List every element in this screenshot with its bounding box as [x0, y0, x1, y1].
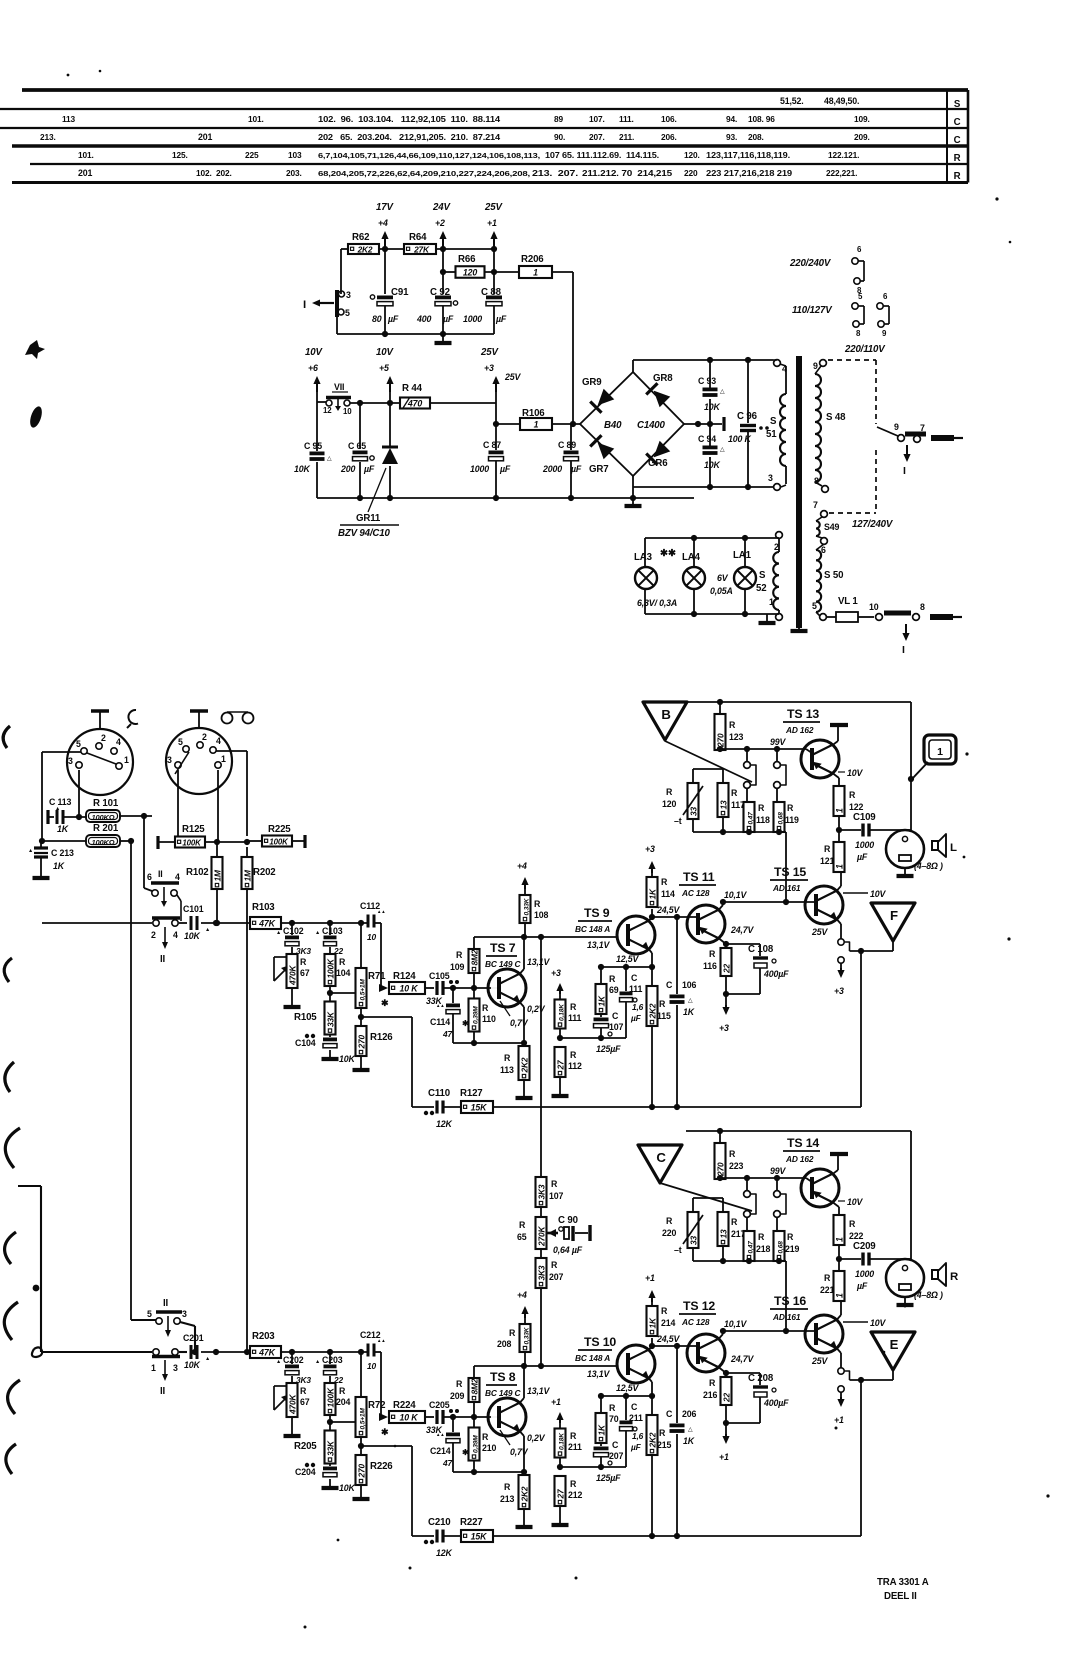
- svg-text:1: 1: [221, 754, 226, 764]
- svg-text:R: R: [666, 1216, 673, 1226]
- svg-text:1,6: 1,6: [632, 1002, 644, 1012]
- svg-text:51,52.: 51,52.: [780, 96, 804, 106]
- svg-text:10,1V: 10,1V: [724, 1319, 748, 1329]
- svg-text:LA4: LA4: [682, 552, 701, 563]
- svg-text:203.: 203.: [286, 168, 302, 178]
- svg-text:R102: R102: [186, 867, 209, 878]
- svg-text:8M2: 8M2: [469, 949, 479, 965]
- feedback rail: [493, 1106, 861, 1108]
- emitter link: [838, 939, 844, 945]
- svg-text:24,5V: 24,5V: [656, 905, 681, 915]
- svg-text:C 108: C 108: [748, 944, 774, 955]
- svg-text:10: 10: [367, 932, 376, 942]
- svg-text:C: C: [954, 117, 961, 128]
- svg-text:221: 221: [820, 1285, 834, 1295]
- bias bottom rail: [693, 831, 786, 833]
- svg-text:12K: 12K: [436, 1548, 452, 1558]
- svg-text:VL 1: VL 1: [838, 596, 858, 607]
- svg-text:R: R: [729, 1149, 736, 1159]
- svg-text:10K: 10K: [339, 1483, 355, 1493]
- ground R67: [291, 1428, 293, 1436]
- svg-text:R224: R224: [393, 1400, 416, 1411]
- svg-text:12,5V: 12,5V: [616, 954, 640, 964]
- svg-text:R: R: [666, 787, 673, 797]
- capacitor C107: [594, 1447, 609, 1451]
- svg-text:27K: 27K: [413, 244, 430, 254]
- svg-text:209: 209: [450, 1391, 464, 1401]
- wire TS11 emitter: [719, 939, 726, 945]
- svg-text:223 217,216,218 219: 223 217,216,218 219: [706, 169, 793, 178]
- svg-text:220: 220: [662, 1228, 676, 1238]
- svg-text:1: 1: [834, 864, 844, 869]
- svg-text:112: 112: [568, 1061, 582, 1071]
- svg-text:110: 110: [482, 1014, 496, 1024]
- svg-text:1: 1: [534, 419, 539, 429]
- right rail: [860, 1380, 862, 1536]
- terminal +4: [384, 236, 386, 249]
- svg-text:TS 7: TS 7: [490, 941, 516, 955]
- svg-text:R62: R62: [352, 232, 369, 243]
- link 2: [774, 1191, 781, 1198]
- output top rail: [686, 701, 911, 703]
- svg-text:206: 206: [682, 1409, 696, 1419]
- top rail: [633, 359, 773, 361]
- svg-text:4: 4: [216, 736, 221, 746]
- svg-text:10V: 10V: [870, 889, 886, 899]
- svg-text:13,1V: 13,1V: [527, 1386, 551, 1396]
- output flag 1: [908, 776, 914, 782]
- wire R66: [443, 271, 456, 273]
- svg-text:270: 270: [356, 1035, 366, 1050]
- svg-text:9: 9: [813, 361, 818, 371]
- svg-text:▲: ▲: [315, 1359, 320, 1365]
- svg-text:E: E: [890, 1337, 899, 1352]
- wire +3 down: [495, 384, 497, 403]
- svg-text:▲: ▲: [315, 930, 320, 936]
- svg-text:+3: +3: [719, 1023, 729, 1033]
- svg-text:0,7V: 0,7V: [510, 1018, 529, 1028]
- terminal +3: [840, 963, 842, 968]
- svg-text:R202: R202: [253, 867, 276, 878]
- svg-text:80: 80: [372, 314, 382, 324]
- wire DIN1 pin5 to left rail: [42, 751, 81, 753]
- svg-text:47: 47: [442, 1029, 452, 1039]
- svg-text:R: R: [954, 171, 961, 182]
- svg-text:104: 104: [336, 968, 350, 978]
- svg-text:5: 5: [76, 739, 81, 749]
- svg-text:0,05A: 0,05A: [710, 586, 733, 596]
- svg-text:207: 207: [549, 1272, 563, 1282]
- svg-text:S: S: [954, 99, 961, 110]
- feedback diagonal: [665, 741, 752, 782]
- wire to feedback rail: [361, 1445, 412, 1447]
- svg-text:107 65. 111.112.69. 114.115.: 107 65. 111.112.69. 114.115.: [545, 151, 659, 160]
- svg-text:12,5V: 12,5V: [616, 1383, 640, 1393]
- svg-text:2: 2: [151, 930, 156, 940]
- wire TS15 collector: [837, 1315, 841, 1320]
- svg-text:(4–8Ω ): (4–8Ω ): [914, 1290, 943, 1300]
- winding S48: [820, 360, 827, 367]
- svg-text:1: 1: [769, 597, 774, 607]
- wire to driver base: [785, 832, 787, 902]
- svg-text:5: 5: [345, 308, 350, 318]
- svg-text:µF: µF: [630, 1013, 642, 1023]
- svg-text:33: 33: [688, 807, 698, 816]
- svg-text:1,6: 1,6: [632, 1431, 644, 1441]
- svg-text:208: 208: [497, 1339, 511, 1349]
- svg-text:470K: 470K: [287, 965, 297, 986]
- svg-text:GR9: GR9: [582, 377, 602, 388]
- svg-text:R: R: [824, 844, 831, 854]
- svg-text:1M: 1M: [242, 869, 252, 881]
- svg-text:△: △: [720, 446, 725, 453]
- svg-text:R205: R205: [294, 1441, 317, 1452]
- svg-text:470: 470: [407, 398, 422, 408]
- terminal +4: [524, 1311, 526, 1318]
- svg-text:+4: +4: [517, 1290, 527, 1300]
- svg-text:AD 161: AD 161: [772, 1312, 801, 1322]
- lamp LA3: [635, 567, 657, 589]
- svg-text:6V: 6V: [717, 573, 729, 583]
- switch I contact 3-5: [335, 290, 339, 317]
- wire TS9 emitter: [649, 1379, 652, 1383]
- decoupling rail: [560, 1037, 626, 1039]
- svg-text:201: 201: [78, 168, 92, 178]
- lamp LA4: [683, 567, 705, 589]
- svg-text:214: 214: [661, 1318, 675, 1328]
- wire DIN2 pin4: [216, 750, 247, 752]
- svg-text:13: 13: [718, 800, 728, 809]
- svg-text:8: 8: [920, 602, 925, 612]
- svg-text:102. 96. 103.104. 112,92,1: 102. 96. 103.104. 112,92,105 110. 88.114: [318, 115, 501, 124]
- bridge rectifier B40 C1400: [580, 372, 684, 476]
- wire TS9 collector: [649, 917, 652, 921]
- diode GR8: [654, 391, 671, 408]
- svg-text:I: I: [902, 644, 905, 656]
- svg-text:201: 201: [198, 132, 212, 142]
- svg-text:TS 8: TS 8: [490, 1370, 516, 1384]
- svg-text:C205: C205: [429, 1400, 450, 1410]
- svg-text:6,7,104,105,71,126,44,66,109,1: 6,7,104,105,71,126,44,66,109,110,127,124…: [318, 153, 540, 160]
- svg-text:BC 148 A: BC 148 A: [575, 1353, 610, 1363]
- svg-text:LA3: LA3: [634, 552, 653, 563]
- svg-text:–t: –t: [674, 1245, 682, 1255]
- svg-text:R125: R125: [182, 824, 205, 835]
- loudspeaker R: [886, 1259, 924, 1297]
- svg-text:B40: B40: [604, 420, 622, 431]
- svg-text:TS 10: TS 10: [584, 1335, 616, 1349]
- wire TS9 collector: [649, 1346, 652, 1350]
- svg-text:R: R: [849, 790, 856, 800]
- svg-text:10V: 10V: [847, 768, 863, 778]
- svg-text:200: 200: [340, 464, 355, 474]
- capacitor C94: [709, 424, 711, 446]
- svg-text:TS 14: TS 14: [787, 1136, 819, 1150]
- svg-text:II: II: [160, 954, 166, 965]
- svg-text:R: R: [729, 720, 736, 730]
- svg-text:13: 13: [718, 1229, 728, 1238]
- svg-text:47: 47: [442, 1458, 452, 1468]
- wire DIN2 pin1: [217, 770, 219, 842]
- svg-text:R: R: [504, 1053, 511, 1063]
- wire selector to switch: [131, 1319, 156, 1321]
- svg-text:R: R: [661, 1306, 668, 1316]
- svg-text:▲: ▲: [276, 1359, 281, 1365]
- svg-text:90.: 90.: [554, 132, 565, 142]
- svg-text:R: R: [787, 1232, 794, 1242]
- svg-text:+1: +1: [487, 218, 497, 228]
- chassis TS13 collector: [833, 741, 838, 745]
- emitter link: [838, 1368, 844, 1374]
- svg-text:100 K: 100 K: [728, 434, 752, 444]
- svg-text:R: R: [482, 1003, 489, 1013]
- svg-text:0,18K: 0,18K: [558, 1432, 565, 1450]
- svg-text:µF: µF: [499, 464, 511, 474]
- svg-text:+1: +1: [719, 1452, 729, 1462]
- label 10V: [838, 1200, 845, 1202]
- svg-text:0,2V: 0,2V: [527, 1004, 546, 1014]
- loudspeaker L: [886, 830, 924, 868]
- svg-text:48,49,50.: 48,49,50.: [824, 96, 859, 106]
- svg-text:R: R: [824, 1273, 831, 1283]
- wire R44 to +3 node: [430, 402, 496, 404]
- svg-text:27: 27: [555, 1489, 565, 1499]
- svg-text:1: 1: [124, 755, 129, 765]
- svg-text:0,64 µF: 0,64 µF: [553, 1245, 583, 1255]
- emitter rail TS9: [601, 1395, 652, 1397]
- svg-text:10K: 10K: [184, 931, 200, 941]
- svg-text:GR6: GR6: [648, 458, 668, 469]
- DIN1 pins: [81, 748, 87, 754]
- svg-text:R: R: [551, 1260, 558, 1270]
- svg-text:R: R: [339, 957, 346, 967]
- svg-text:C 89: C 89: [558, 440, 576, 450]
- svg-text:TS 11: TS 11: [683, 870, 715, 884]
- dashed tap 127/240V: [875, 450, 877, 513]
- svg-text:213.: 213.: [40, 132, 56, 142]
- DIN2 pins: [183, 746, 189, 752]
- output rail: [910, 1131, 912, 1259]
- svg-text:212: 212: [568, 1490, 582, 1500]
- wire emitter: [520, 1003, 524, 1008]
- svg-text:127/240V: 127/240V: [852, 519, 894, 530]
- ground R113: [523, 1519, 525, 1527]
- wire R64 to +1 node: [436, 248, 494, 250]
- capacitor C96: [747, 360, 749, 423]
- svg-text:C114: C114: [430, 1017, 450, 1027]
- svg-text:24,7V: 24,7V: [730, 925, 755, 935]
- svg-text:13,1V: 13,1V: [587, 940, 611, 950]
- capacitor C106: [674, 1343, 680, 1349]
- svg-text:R: R: [659, 999, 666, 1009]
- wire lower channel input left: [18, 1185, 41, 1187]
- wire: [201, 922, 250, 924]
- svg-text:2: 2: [202, 732, 207, 742]
- svg-text:▲: ▲: [28, 848, 33, 854]
- svg-text:BC 148 A: BC 148 A: [575, 924, 610, 934]
- svg-text:+3: +3: [645, 844, 655, 854]
- svg-text:24,5V: 24,5V: [656, 1334, 681, 1344]
- svg-text:TS 15: TS 15: [774, 865, 806, 879]
- svg-text:70: 70: [609, 1414, 619, 1424]
- svg-text:213. 207.: 213. 207.: [532, 169, 578, 178]
- svg-text:33: 33: [688, 1236, 698, 1245]
- svg-text:R: R: [731, 1217, 738, 1227]
- svg-text:△: △: [720, 388, 725, 395]
- svg-text:10 K: 10 K: [400, 983, 419, 993]
- terminal +1: [725, 1423, 727, 1435]
- svg-text:67: 67: [300, 1397, 310, 1407]
- wire to feedback rail: [361, 1016, 412, 1018]
- wire DIN2 pin3: [177, 770, 179, 837]
- svg-text:C 95: C 95: [304, 441, 322, 451]
- wire DIN1 pin3: [78, 770, 80, 817]
- svg-text:R: R: [661, 877, 668, 887]
- svg-text:25V: 25V: [811, 1356, 828, 1366]
- microphone icon: [127, 710, 138, 728]
- svg-text:B: B: [661, 707, 670, 722]
- svg-text:125µF: 125µF: [596, 1044, 621, 1054]
- svg-text:R: R: [849, 1219, 856, 1229]
- svg-text:111: 111: [568, 1013, 582, 1023]
- svg-text:2K2: 2K2: [357, 244, 373, 254]
- svg-text:GR11: GR11: [356, 513, 381, 524]
- svg-text:R: R: [787, 803, 794, 813]
- svg-text:100K: 100K: [269, 837, 289, 846]
- svg-text:204: 204: [336, 1397, 350, 1407]
- svg-text:AC 128: AC 128: [681, 888, 710, 898]
- svg-text:10V: 10V: [305, 347, 323, 358]
- svg-text:210: 210: [482, 1443, 496, 1453]
- wire TS11 collector: [719, 905, 723, 910]
- svg-text:TS 13: TS 13: [787, 707, 819, 721]
- svg-text:R: R: [609, 974, 616, 984]
- bottom rail to pin 3: [633, 486, 773, 488]
- svg-text:93.: 93.: [726, 132, 737, 142]
- wire to triangle E: [850, 1379, 894, 1381]
- svg-text:220/240V: 220/240V: [789, 258, 832, 269]
- svg-text:R: R: [709, 949, 716, 959]
- svg-text:F: F: [890, 908, 898, 923]
- diode GR6: [654, 441, 671, 458]
- ground core: [798, 620, 800, 631]
- svg-text:108. 96: 108. 96: [748, 114, 775, 124]
- svg-text:C 65: C 65: [348, 441, 366, 451]
- svg-text:II: II: [158, 869, 163, 879]
- svg-text:216: 216: [703, 1390, 717, 1400]
- svg-text:II: II: [163, 1298, 169, 1309]
- svg-text:122: 122: [849, 802, 863, 812]
- capacitor C65 branch: [359, 403, 361, 449]
- svg-text:µF: µF: [387, 314, 399, 324]
- svg-text:R: R: [482, 1432, 489, 1442]
- svg-text:101.: 101.: [248, 114, 264, 124]
- svg-text:R: R: [758, 803, 765, 813]
- svg-text:R: R: [659, 1428, 666, 1438]
- svg-text:1K: 1K: [683, 1007, 695, 1017]
- bias rail 99V: [720, 748, 806, 750]
- wire collector: [520, 1398, 524, 1403]
- svg-text:103: 103: [288, 150, 302, 160]
- svg-text:12K: 12K: [436, 1119, 452, 1129]
- bias bottom rail: [693, 1260, 786, 1262]
- scan specks: [995, 197, 998, 200]
- svg-text:▲: ▲: [205, 927, 210, 933]
- svg-text:C 87: C 87: [483, 440, 501, 450]
- svg-text:3K3: 3K3: [536, 1184, 546, 1199]
- svg-text:400µF: 400µF: [763, 969, 789, 979]
- mid rail: [684, 423, 722, 425]
- svg-text:R: R: [570, 1050, 577, 1060]
- terminal +3: [495, 381, 497, 392]
- svg-text:15K: 15K: [471, 1531, 487, 1541]
- svg-text:R: R: [456, 1379, 463, 1389]
- svg-text:206.: 206.: [661, 132, 677, 142]
- svg-text:R227: R227: [460, 1517, 483, 1528]
- ground C104: [329, 1050, 331, 1059]
- svg-text:207: 207: [609, 1451, 623, 1461]
- wire TS11 emitter: [719, 1368, 726, 1374]
- svg-text:211: 211: [568, 1442, 582, 1452]
- terminal +1: [840, 1392, 842, 1397]
- svg-text:R: R: [731, 788, 738, 798]
- svg-text:1K: 1K: [647, 888, 657, 899]
- svg-text:C102: C102: [283, 926, 304, 936]
- svg-text:R225: R225: [268, 824, 291, 835]
- output top rail: [686, 1130, 911, 1132]
- wire to triangle F: [850, 950, 894, 952]
- wire collector: [520, 969, 524, 974]
- wire TS13 emitter: [833, 774, 839, 779]
- transformer core: [796, 356, 802, 628]
- svg-text:C: C: [656, 1150, 666, 1165]
- terminal +6: [316, 381, 318, 392]
- svg-text:207.: 207.: [589, 132, 605, 142]
- svg-text:▲▲: ▲▲: [377, 1338, 385, 1343]
- collector rail: [474, 1365, 617, 1367]
- svg-text:✱✱: ✱✱: [660, 548, 677, 559]
- svg-text:R 44: R 44: [402, 383, 423, 394]
- wire R202 down to lower channel: [246, 889, 248, 1352]
- svg-text:BC 149 C: BC 149 C: [485, 1388, 522, 1398]
- svg-text:10,1V: 10,1V: [724, 890, 748, 900]
- svg-text:R: R: [300, 1386, 307, 1396]
- svg-text:222: 222: [849, 1231, 863, 1241]
- svg-text:8M2: 8M2: [469, 1378, 479, 1394]
- terminal +1: [493, 236, 495, 249]
- svg-text:▲▲: ▲▲: [436, 1432, 444, 1437]
- svg-text:113: 113: [62, 114, 76, 124]
- wire: [281, 1351, 368, 1353]
- svg-text:▲: ▲: [276, 930, 281, 936]
- ground R112: [559, 1517, 561, 1525]
- svg-text:5: 5: [812, 601, 817, 611]
- svg-text:R: R: [570, 1431, 577, 1441]
- ground R226: [360, 1491, 362, 1499]
- svg-text:10V: 10V: [847, 1197, 863, 1207]
- svg-text:1: 1: [834, 1293, 844, 1298]
- svg-text:0,68: 0,68: [777, 1241, 784, 1254]
- terminal +3: [651, 1295, 653, 1302]
- wire VII to R44: [350, 402, 401, 404]
- svg-text:C 208: C 208: [748, 1373, 774, 1384]
- wire TS13 emitter: [833, 1203, 839, 1208]
- svg-text:TS 9: TS 9: [584, 906, 610, 920]
- switch II play 2-4: [152, 916, 180, 920]
- bias rail 99V: [720, 1177, 806, 1179]
- diode GR9: [598, 389, 615, 406]
- svg-text:µF: µF: [630, 1442, 642, 1452]
